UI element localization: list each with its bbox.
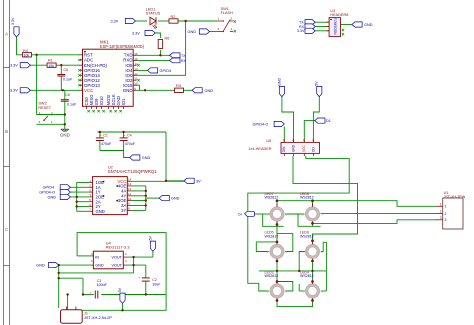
svg-text:16: 16 bbox=[134, 57, 138, 61]
svg-text:GND: GND bbox=[48, 195, 57, 199]
svg-text:+: + bbox=[90, 291, 92, 295]
svg-text:R1: R1 bbox=[48, 58, 53, 62]
svg-text:3: 3 bbox=[39, 120, 41, 124]
svg-text:RESET: RESET bbox=[38, 106, 51, 110]
svg-text:5V: 5V bbox=[148, 235, 152, 240]
svg-text:+: + bbox=[124, 133, 126, 137]
svg-text:GND: GND bbox=[364, 23, 373, 27]
svg-text:R4: R4 bbox=[23, 49, 28, 53]
svg-text:1x4-HEADER: 1x4-HEADER bbox=[248, 147, 271, 151]
svg-text:VOUT: VOUT bbox=[111, 263, 122, 267]
svg-text:STATUS: STATUS bbox=[146, 11, 161, 15]
svg-text:DO: DO bbox=[311, 147, 315, 152]
svg-text:NODEMCU: NODEMCU bbox=[334, 17, 338, 34]
svg-text:R3: R3 bbox=[176, 84, 181, 88]
svg-text:DI: DI bbox=[238, 212, 241, 216]
svg-text:VOUT: VOUT bbox=[111, 255, 122, 259]
svg-text:GND: GND bbox=[171, 197, 180, 201]
svg-text:3.3V: 3.3V bbox=[297, 29, 305, 33]
svg-text:470uF: 470uF bbox=[101, 142, 112, 146]
svg-text:WS2812: WS2812 bbox=[265, 274, 279, 278]
svg-text:SW2: SW2 bbox=[38, 101, 46, 105]
svg-text:1: 1 bbox=[218, 16, 220, 20]
svg-text:JST-XH-2.54-2P: JST-XH-2.54-2P bbox=[84, 316, 112, 320]
svg-text:3.3V: 3.3V bbox=[10, 89, 18, 93]
svg-text:DIN: DIN bbox=[282, 146, 286, 152]
svg-text:1: 1 bbox=[91, 259, 93, 263]
svg-text:GND: GND bbox=[292, 144, 296, 152]
svg-text:A: A bbox=[5, 32, 9, 37]
svg-text:WS2812: WS2812 bbox=[300, 234, 314, 238]
svg-text:0.1uF: 0.1uF bbox=[67, 102, 77, 106]
svg-text:10k: 10k bbox=[48, 64, 54, 68]
svg-text:C1: C1 bbox=[103, 134, 108, 138]
svg-text:C6: C6 bbox=[64, 68, 69, 72]
svg-text:3.3V: 3.3V bbox=[11, 17, 15, 25]
svg-text:3: 3 bbox=[218, 27, 220, 31]
svg-text:GPIO4: GPIO4 bbox=[160, 69, 172, 73]
svg-text:GND: GND bbox=[123, 88, 133, 93]
svg-text:GND: GND bbox=[96, 209, 105, 214]
svg-text:WS2812: WS2812 bbox=[265, 234, 279, 238]
svg-text:GND: GND bbox=[188, 30, 197, 34]
svg-text:WS2812: WS2812 bbox=[265, 196, 279, 200]
svg-text:4: 4 bbox=[125, 259, 127, 263]
svg-text:3.3V: 3.3V bbox=[10, 64, 18, 68]
svg-text:3: 3 bbox=[445, 218, 447, 222]
svg-text:FLASH: FLASH bbox=[221, 11, 233, 15]
svg-text:100uF: 100uF bbox=[97, 283, 108, 287]
svg-text:RX: RX bbox=[181, 59, 186, 63]
svg-text:10uF: 10uF bbox=[152, 283, 161, 287]
svg-text:12: 12 bbox=[134, 72, 138, 76]
svg-text:GND: GND bbox=[205, 89, 214, 93]
svg-text:GND: GND bbox=[277, 78, 281, 86]
svg-text:13: 13 bbox=[134, 67, 138, 71]
svg-text:U5: U5 bbox=[266, 139, 271, 143]
svg-text:C4: C4 bbox=[127, 134, 132, 138]
svg-text:14: 14 bbox=[134, 62, 138, 66]
svg-text:4: 4 bbox=[231, 27, 233, 31]
svg-text:IO10: IO10 bbox=[99, 96, 104, 106]
svg-text:GND: GND bbox=[60, 133, 70, 138]
svg-text:10: 10 bbox=[134, 82, 138, 86]
svg-text:R2: R2 bbox=[171, 15, 176, 19]
svg-text:HEADER8: HEADER8 bbox=[330, 13, 348, 17]
svg-text:10k: 10k bbox=[24, 53, 30, 57]
svg-text:3: 3 bbox=[440, 216, 442, 220]
svg-text:3.3V: 3.3V bbox=[132, 31, 140, 35]
svg-text:WS2812: WS2812 bbox=[300, 196, 314, 200]
svg-text:VCC: VCC bbox=[84, 88, 93, 93]
svg-text:VCC: VCC bbox=[117, 179, 126, 184]
svg-text:13: 13 bbox=[128, 182, 132, 186]
svg-text:3.3V: 3.3V bbox=[111, 19, 119, 23]
svg-text:JST-XH-3PIN: JST-XH-3PIN bbox=[444, 195, 466, 199]
svg-text:VCC: VCC bbox=[302, 145, 306, 152]
svg-text:REG1117-3.3: REG1117-3.3 bbox=[106, 245, 131, 250]
svg-text:WS2812: WS2812 bbox=[300, 274, 314, 278]
svg-text:11: 11 bbox=[128, 192, 131, 196]
svg-text:10: 10 bbox=[128, 197, 132, 201]
svg-text:GND: GND bbox=[36, 264, 45, 268]
svg-text:11: 11 bbox=[134, 77, 137, 81]
svg-text:SN74AHCT125QPWRQ1: SN74AHCT125QPWRQ1 bbox=[108, 169, 158, 174]
svg-text:3: 3 bbox=[91, 252, 93, 256]
svg-text:+: + bbox=[100, 133, 102, 137]
svg-text:1: 1 bbox=[51, 120, 53, 124]
svg-text:B: B bbox=[5, 129, 8, 134]
svg-text:2: 2 bbox=[440, 209, 442, 213]
svg-text:GND: GND bbox=[142, 156, 151, 160]
svg-text:12: 12 bbox=[128, 187, 132, 191]
svg-text:R6: R6 bbox=[165, 37, 170, 41]
svg-text:+: + bbox=[139, 276, 141, 280]
svg-text:ADC: ADC bbox=[84, 58, 93, 63]
svg-text:0.1uF: 0.1uF bbox=[63, 78, 73, 82]
svg-text:14: 14 bbox=[128, 178, 132, 182]
svg-text:GPIO4: GPIO4 bbox=[43, 186, 55, 190]
svg-text:2: 2 bbox=[445, 212, 447, 216]
svg-text:ESP-12F(ESP8266MOD): ESP-12F(ESP8266MOD) bbox=[100, 44, 144, 49]
svg-text:GPIO4-O: GPIO4-O bbox=[253, 123, 269, 127]
svg-text:IO1: IO1 bbox=[121, 98, 126, 105]
svg-text:2: 2 bbox=[231, 16, 233, 20]
svg-text:1: 1 bbox=[440, 202, 442, 206]
svg-text:3Y: 3Y bbox=[121, 208, 126, 213]
svg-text:470uF: 470uF bbox=[125, 142, 136, 146]
svg-text:D1: D1 bbox=[326, 119, 331, 123]
svg-text:2: 2 bbox=[125, 252, 127, 256]
svg-text:C: C bbox=[5, 227, 9, 232]
svg-text:TX: TX bbox=[181, 54, 186, 58]
svg-text:5V: 5V bbox=[315, 81, 319, 86]
svg-text:5V: 5V bbox=[118, 287, 122, 292]
svg-text:15: 15 bbox=[134, 52, 138, 56]
svg-text:GPIO4-O: GPIO4-O bbox=[39, 191, 55, 195]
svg-text:3V: 3V bbox=[196, 179, 201, 183]
svg-text:IN: IN bbox=[95, 255, 99, 259]
svg-text:GND: GND bbox=[95, 263, 104, 267]
svg-text:C8: C8 bbox=[65, 93, 70, 97]
svg-text:1: 1 bbox=[445, 205, 447, 209]
